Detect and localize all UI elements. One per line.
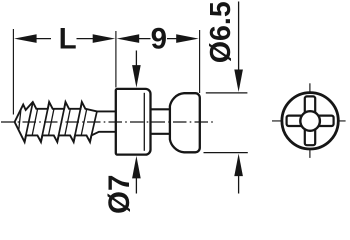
svg-text:Ø6.5: Ø6.5	[205, 1, 237, 63]
collar chamfer line	[143, 93, 145, 151]
arrow 9 left	[117, 34, 140, 43]
extension line left (L)	[12, 29, 14, 115]
end view vertical centerline	[309, 83, 311, 158]
Oe6.5 dimension stem top	[238, 2, 240, 72]
center hole circle	[300, 111, 320, 131]
screw thread outline bottom	[15, 122, 116, 142]
svg-text:L: L	[59, 23, 77, 56]
arrow 9 right	[176, 34, 199, 43]
screw thread outline top	[15, 102, 116, 122]
Oe6.5 extension line top	[206, 92, 248, 94]
neck top line	[151, 108, 170, 110]
arrow L left	[14, 34, 36, 43]
dimension line 9	[138, 38, 178, 40]
collar	[116, 89, 151, 155]
svg-text:Ø7: Ø7	[103, 175, 136, 214]
Oe7 dimension stem top	[135, 51, 137, 67]
end view horizontal centerline	[272, 120, 346, 122]
arrow L right	[93, 34, 116, 43]
thread crest lines	[25, 102, 97, 141]
cross slot vertical	[305, 96, 315, 145]
extension line right (9)	[199, 30, 201, 93]
dimension line L	[35, 38, 95, 40]
Oe6.5 extension line bottom	[204, 152, 248, 154]
Oe7 dimension stem bottom	[135, 178, 137, 194]
head outline	[170, 93, 200, 152]
arrow Oe6.5 down	[234, 70, 243, 93]
arrow Oe7 down	[132, 65, 141, 88]
arrow Oe7 up	[132, 156, 141, 179]
end view outer circle	[282, 93, 338, 149]
svg-text:9: 9	[151, 23, 167, 56]
centerline side view	[1, 121, 214, 123]
Oe6.5 dimension stem bottom	[238, 176, 240, 194]
thread back edges	[19, 109, 87, 135]
arrow Oe6.5 up	[234, 154, 243, 177]
cross slot horizontal	[287, 116, 334, 126]
neck bottom line	[151, 133, 170, 135]
extension line middle (L/9)	[115, 31, 117, 88]
